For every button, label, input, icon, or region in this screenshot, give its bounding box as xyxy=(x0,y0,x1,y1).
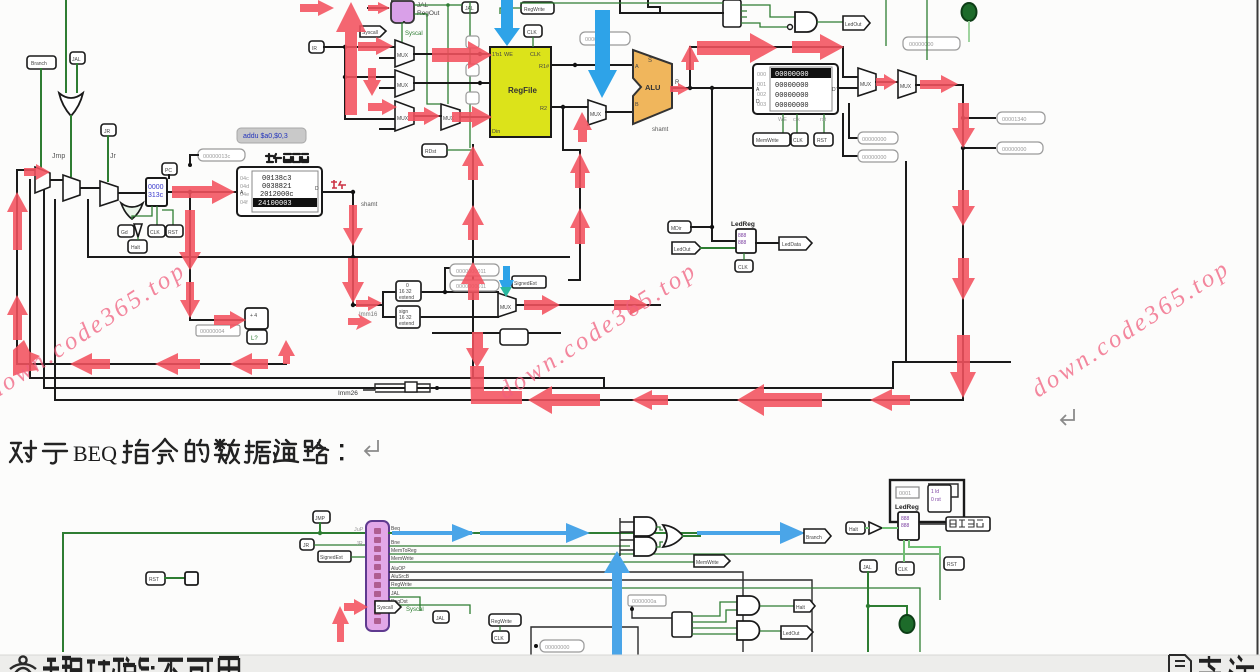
red arrow signext out a xyxy=(524,295,560,315)
register JALreg pink xyxy=(391,1,414,23)
red arrow branch col up b xyxy=(462,205,484,240)
gate AND halt xyxy=(737,596,759,615)
label SignedExt xyxy=(512,276,546,288)
svg-text:RegWrite: RegWrite xyxy=(391,582,412,588)
label JAL mid xyxy=(462,2,478,13)
red arrow wb down b xyxy=(952,190,975,226)
svg-text:LedOut: LedOut xyxy=(674,247,691,253)
wire: green rdst vertical xyxy=(469,2,471,148)
red arrow rd to mux xyxy=(368,99,397,115)
svg-text:04f: 04f xyxy=(240,200,248,206)
wire: to and halt b xyxy=(698,610,737,622)
wire: black L bottom xyxy=(531,627,638,655)
label Halt gates xyxy=(794,600,815,612)
svg-text:Syscal: Syscal xyxy=(406,607,424,613)
svg-text:RST: RST xyxy=(947,562,957,568)
svg-text:MUX: MUX xyxy=(590,112,602,118)
svg-text:00000000: 00000000 xyxy=(775,82,809,90)
register LedReg mid xyxy=(736,229,756,253)
label JAL top-left xyxy=(70,52,85,64)
svg-text:Jr: Jr xyxy=(110,153,117,160)
footer 可 xyxy=(187,660,213,672)
heading 令 xyxy=(153,439,177,463)
svg-text:Halt: Halt xyxy=(796,605,806,611)
zero extend box xyxy=(396,281,421,301)
svg-text:00000000: 00000000 xyxy=(1002,147,1026,153)
wire: jr green xyxy=(314,544,366,546)
blue arrow signext mux xyxy=(499,266,514,296)
svg-text:D: D xyxy=(315,186,319,192)
node rt xyxy=(343,75,347,79)
wire: probe down xyxy=(632,606,672,618)
svg-text:00000000: 00000000 xyxy=(775,92,809,100)
red arrow alu bypass up xyxy=(681,45,699,70)
buffer lr xyxy=(869,522,882,534)
wire: green syscall drop xyxy=(401,22,403,42)
wire: and2 to or xyxy=(656,542,663,547)
probe wb1 xyxy=(858,132,898,144)
svg-text:JAL: JAL xyxy=(436,616,445,622)
footer 功 xyxy=(98,660,124,672)
page right border xyxy=(1257,0,1259,655)
red arrow left edge up b xyxy=(7,192,28,250)
svg-text:CLK: CLK xyxy=(530,52,541,58)
node bm xyxy=(534,644,538,648)
svg-text:CLK: CLK xyxy=(738,265,748,271)
node jmp xyxy=(318,531,322,535)
svg-text:RegWrite: RegWrite xyxy=(524,7,545,13)
node rs xyxy=(343,45,347,49)
footer 助 xyxy=(71,658,96,672)
svg-text:JR: JR xyxy=(104,129,111,135)
svg-text:1'b1: 1'b1 xyxy=(492,52,502,58)
wire: green pc bottom xyxy=(132,206,152,219)
svg-text:00000000: 00000000 xyxy=(862,155,886,161)
led probe top right xyxy=(962,3,977,21)
wire: dmem clk pin xyxy=(796,114,798,133)
comparator box xyxy=(247,330,267,344)
red arrow bottom left b xyxy=(632,390,668,410)
wire: feedback L2 xyxy=(30,180,604,388)
probe 00000004 xyxy=(196,325,240,336)
svg-text:Branch: Branch xyxy=(806,535,822,541)
wire: block loop xyxy=(928,484,958,497)
red arrow imm sign xyxy=(348,314,372,330)
blue line beq 3 xyxy=(697,531,782,535)
svg-text:RST: RST xyxy=(168,230,178,236)
svg-text:R1#: R1# xyxy=(539,64,550,70)
svg-text:1 ld: 1 ld xyxy=(931,489,939,495)
red arrow branch col down xyxy=(466,332,489,368)
mux MA rs xyxy=(395,40,414,67)
label LedOut gates xyxy=(781,626,813,639)
red arrow branch col up c xyxy=(461,262,485,300)
wire: led out xyxy=(760,630,781,632)
svg-text:WE: WE xyxy=(504,52,513,58)
heading 的 xyxy=(186,440,208,462)
wire: halt out xyxy=(760,605,794,607)
label JR bottom xyxy=(300,539,314,550)
wire: dmem out xyxy=(838,87,858,89)
blue line beq 2 xyxy=(480,531,566,535)
svg-text:888: 888 xyxy=(901,523,910,529)
svg-text:MemWrite: MemWrite xyxy=(756,138,779,144)
probe faint behind blue xyxy=(580,32,630,45)
wire: to and led b xyxy=(698,633,737,635)
probe ext1 xyxy=(450,264,499,276)
indicator box 2 xyxy=(466,64,479,76)
svg-text:clk: clk xyxy=(793,117,800,123)
svg-text:B: B xyxy=(635,102,639,108)
label PC xyxy=(162,163,177,175)
led bottom xyxy=(900,615,915,633)
wire: IR bus xyxy=(324,46,395,48)
red arrow down pc4 a xyxy=(179,210,201,270)
red arrow ctrl up xyxy=(332,606,349,642)
wire: into splitter xyxy=(620,0,723,13)
svg-text:00138c3: 00138c3 xyxy=(262,175,291,183)
label JMP xyxy=(313,511,330,523)
svg-text:888: 888 xyxy=(738,240,747,246)
wire: signedext green xyxy=(351,556,366,558)
svg-text:extend: extend xyxy=(399,321,414,327)
probe ext2 xyxy=(450,280,499,291)
red arrow bypass right big xyxy=(697,33,777,63)
wire: clk stub xyxy=(743,253,745,260)
register in block xyxy=(928,485,951,512)
label Syscall bottom xyxy=(375,601,401,613)
footer 辅 xyxy=(43,658,71,672)
text chinese tiny xyxy=(950,520,983,527)
svg-text:Jmp: Jmp xyxy=(52,153,65,160)
mux MG jalmux xyxy=(898,70,916,98)
svg-text:LedOut: LedOut xyxy=(845,22,862,28)
node imm26 xyxy=(435,386,439,390)
svg-text:Branch: Branch xyxy=(31,61,47,67)
gate: OR clk under PC xyxy=(121,203,143,219)
wire: mux chain xyxy=(50,179,63,181)
wire: signext mux out xyxy=(516,304,660,306)
svg-text:AluSrcB: AluSrcB xyxy=(391,574,410,580)
red arrow memtoreg mux xyxy=(876,74,897,90)
wire: mux1 low input xyxy=(380,57,395,59)
red arrow upper left run b xyxy=(155,353,200,375)
control unit box xyxy=(366,521,389,631)
footer bar xyxy=(0,655,1260,672)
svg-text:LedReg: LedReg xyxy=(731,221,755,228)
svg-text:00000000: 00000000 xyxy=(775,71,809,79)
wire: muxD to Din xyxy=(460,116,490,118)
label RST pc xyxy=(166,225,183,237)
svg-text:RegFile: RegFile xyxy=(508,86,537,95)
svg-text:24100003: 24100003 xyxy=(258,200,292,208)
wire: rs rt rd vertical xyxy=(345,47,395,119)
red arrow upper left run c xyxy=(230,353,268,375)
label LedOut top xyxy=(843,16,870,30)
adder plus4 xyxy=(245,308,268,329)
text 指令 red annotation xyxy=(331,180,346,189)
svg-text:00000000: 00000000 xyxy=(775,102,809,110)
svg-text:extend: extend xyxy=(399,295,414,301)
wire: feedback L4 bottom long xyxy=(55,85,963,400)
label CLK bottom mid xyxy=(492,631,509,643)
pilcrow heading xyxy=(365,440,378,456)
wire: alu bypass up xyxy=(690,47,858,88)
svg-text:shamt: shamt xyxy=(361,202,378,208)
label LedData xyxy=(779,237,812,250)
ledreg block box xyxy=(890,480,964,522)
wire: ledreg out xyxy=(756,242,779,244)
wire: green rst xyxy=(162,210,173,225)
svg-text:0 rst: 0 rst xyxy=(931,497,941,503)
wire: clk to reg xyxy=(903,540,905,562)
probe bottom mid xyxy=(540,640,584,652)
wire: green and in1 xyxy=(747,5,795,17)
svg-text:Halt: Halt xyxy=(849,527,859,533)
gate AND ledout xyxy=(795,12,817,32)
node imm xyxy=(351,303,355,307)
probe 0000000a xyxy=(628,595,666,606)
wire: led link xyxy=(868,606,907,616)
svg-text:RST: RST xyxy=(149,577,159,583)
wire: rdst green xyxy=(447,149,473,151)
signal AluSrcB wire black xyxy=(389,580,812,652)
svg-text:+ 4: + 4 xyxy=(250,313,257,319)
wire: green and in2 xyxy=(747,23,789,27)
wire: to and led xyxy=(698,627,737,629)
wire: clk stub xyxy=(499,626,501,631)
comparator small box lower xyxy=(500,329,528,345)
wire: muxA out xyxy=(414,53,490,55)
svg-text:JR: JR xyxy=(356,541,363,547)
blue vertical arrow xyxy=(612,572,622,655)
red arrow wb down c xyxy=(952,258,975,300)
red arrow wb down d xyxy=(950,335,976,398)
red arrow rs to mux xyxy=(358,37,393,55)
wire: muxF to muxG xyxy=(876,81,898,83)
wire: reg to label xyxy=(919,523,946,525)
wire: green long vertical 1 xyxy=(885,0,887,46)
wire: lower bus xyxy=(433,332,560,334)
label Gd xyxy=(118,225,134,237)
wire: green jal to label xyxy=(448,4,462,6)
red arrow wb down a xyxy=(952,103,975,148)
mux MD wreg xyxy=(441,104,460,130)
mux MC rd xyxy=(395,101,414,131)
blue line beq xyxy=(392,531,472,535)
wire: zero extend out xyxy=(420,268,452,292)
node muxb out xyxy=(478,81,482,85)
const box rst xyxy=(185,572,198,585)
label RDst xyxy=(422,144,447,157)
svg-text:MemToReg: MemToReg xyxy=(391,548,417,554)
control unit vertical text xyxy=(374,528,381,624)
svg-text:CLK: CLK xyxy=(494,636,504,642)
memory DataMem xyxy=(753,64,838,114)
svg-text:CLK: CLK xyxy=(527,30,537,36)
heading 数 xyxy=(215,440,239,463)
heading 指 xyxy=(123,440,148,463)
svg-text:JMP: JMP xyxy=(315,516,326,522)
wire: muxE out to ALU B xyxy=(606,111,633,113)
svg-text:ALU: ALU xyxy=(645,83,660,92)
node extjoin xyxy=(443,290,447,294)
red arrow bottom left big xyxy=(528,386,600,414)
red arrow ctrl right xyxy=(344,599,368,615)
wire: main green feed xyxy=(63,533,366,651)
heading 通 xyxy=(274,440,298,462)
wire: splitter pins bottom xyxy=(692,616,698,634)
mux ME alusrc xyxy=(588,100,606,125)
svg-text:Halt: Halt xyxy=(131,245,141,251)
svg-text:SignedExt: SignedExt xyxy=(320,555,343,561)
heading 对 xyxy=(10,441,36,462)
wire: feedback L3 xyxy=(44,190,1010,388)
svg-text:D: D xyxy=(756,99,760,105)
svg-text:MUX: MUX xyxy=(397,83,409,89)
blue arrow regfile WE xyxy=(494,0,520,46)
wire: ledout green xyxy=(701,247,736,249)
node pa xyxy=(630,607,634,611)
wire: green jal row xyxy=(414,5,448,104)
wire: long horizontal mid xyxy=(87,200,89,257)
svg-text:R2: R2 xyxy=(540,106,547,112)
svg-text:MUX: MUX xyxy=(900,84,912,90)
wire: green input from top xyxy=(65,0,67,92)
signal RegWrite wire xyxy=(389,588,920,652)
svg-text:MemWrite: MemWrite xyxy=(391,556,414,562)
node jal b xyxy=(866,604,870,608)
small gate imm26 xyxy=(405,382,417,392)
wire: splitter pins xyxy=(741,5,747,23)
red arrow branch col up a xyxy=(462,146,484,180)
wire: right mid vertical xyxy=(905,162,907,362)
label RegWrite bottom xyxy=(489,614,521,626)
red arrow muxC out xyxy=(408,107,440,125)
label CLK dmem xyxy=(791,133,808,146)
mux M3 jr xyxy=(100,181,118,206)
node muxa out xyxy=(478,52,482,56)
wire: jr select xyxy=(107,136,109,181)
register ledreg main xyxy=(898,512,919,540)
wire: mux chain 2 xyxy=(80,187,100,189)
wire: shamt long horizontal xyxy=(88,256,569,258)
red arrow rt down xyxy=(363,68,381,96)
wire: pc label stub xyxy=(168,175,170,178)
red arrow into mux M1 xyxy=(24,164,50,180)
wire: halt stub xyxy=(137,237,139,240)
wire: into pink box xyxy=(368,7,388,9)
label CLK lr xyxy=(896,562,914,575)
svg-text:S: S xyxy=(648,58,652,64)
red arrow down pc4 b xyxy=(180,282,200,318)
red arrow signext out b xyxy=(614,295,648,315)
mux signext xyxy=(498,293,516,317)
red arrow alu out xyxy=(670,83,689,95)
svg-text:AluOP: AluOP xyxy=(391,566,406,572)
red arrow imm right xyxy=(356,296,382,311)
wire: rst green xyxy=(165,577,185,579)
wire: long feedback nest bottom-left L1 xyxy=(17,170,286,364)
label RST lr xyxy=(944,557,964,570)
red arrow into pink reg xyxy=(300,0,334,16)
node mdir xyxy=(710,225,714,229)
node imem out xyxy=(351,190,355,194)
red arrow bottom left d xyxy=(870,389,910,411)
wire: rt compare vertical xyxy=(569,150,580,280)
svg-text:0000000a: 0000000a xyxy=(632,599,657,605)
footer 专 xyxy=(1199,656,1221,672)
label CLK regfile xyxy=(524,25,542,37)
wire: mux3 low input xyxy=(380,128,395,130)
probe pc value xyxy=(198,149,245,161)
svg-text:2012000c: 2012000c xyxy=(260,191,294,199)
const 0001 box xyxy=(896,487,919,498)
signal MemWrite wire xyxy=(389,561,694,563)
svg-text:RegWrite: RegWrite xyxy=(491,619,512,625)
wire: mux input bus left xyxy=(17,169,35,171)
wire: and out xyxy=(817,21,843,23)
signal JAL wire xyxy=(389,597,420,611)
splitter bottom xyxy=(672,612,692,637)
red bend bottom left corner xyxy=(470,366,522,404)
svg-text:00000004: 00000004 xyxy=(200,329,224,335)
mux MB rt xyxy=(395,70,414,97)
svg-text:MUX: MUX xyxy=(500,305,512,311)
svg-text:Gd: Gd xyxy=(121,230,128,236)
signal Beq wire xyxy=(389,532,805,534)
red arrow PC to IMem xyxy=(172,180,235,204)
node pc tap xyxy=(188,190,192,194)
node c2 xyxy=(961,146,965,150)
red arrow bypass right b xyxy=(792,34,844,60)
wire: probe c1 xyxy=(963,117,995,119)
wire: jmp stub xyxy=(319,523,321,533)
node alu out xyxy=(688,86,692,90)
svg-text:Syscal: Syscal xyxy=(405,31,423,37)
svg-text:JR: JR xyxy=(303,543,310,549)
wire: R2 out xyxy=(551,106,588,108)
probe out1340 xyxy=(997,112,1045,124)
svg-text:00000013c: 00000013c xyxy=(203,154,230,160)
label MemWrite xyxy=(753,133,790,146)
wire: r2 tap down xyxy=(563,107,580,150)
svg-text:00000000: 00000000 xyxy=(545,645,569,651)
wire: mdir to node xyxy=(691,226,712,228)
splitter box top xyxy=(723,0,741,27)
svg-text:CLK: CLK xyxy=(793,138,803,144)
label Branch xyxy=(27,56,56,69)
node r1a xyxy=(573,63,577,67)
mux M1 branch xyxy=(35,167,50,193)
label Halt xyxy=(128,240,147,253)
sign extend box xyxy=(396,306,420,328)
heading 据 xyxy=(245,441,270,463)
signal AluOP wire black xyxy=(389,572,743,652)
wire: mdir vertical xyxy=(712,88,736,241)
wire: imm26 bits xyxy=(363,384,430,392)
wire: green clk xyxy=(156,206,158,225)
svg-text:Din: Din xyxy=(492,129,500,135)
wire: imm split xyxy=(353,292,396,305)
register PC xyxy=(146,178,167,206)
wire: jal down long xyxy=(867,572,869,651)
svg-text:0000: 0000 xyxy=(148,184,164,191)
svg-text:JAL: JAL xyxy=(72,57,81,63)
tooltip addu xyxy=(237,128,306,143)
node probe xyxy=(188,163,192,167)
gate OR branch xyxy=(663,525,683,547)
